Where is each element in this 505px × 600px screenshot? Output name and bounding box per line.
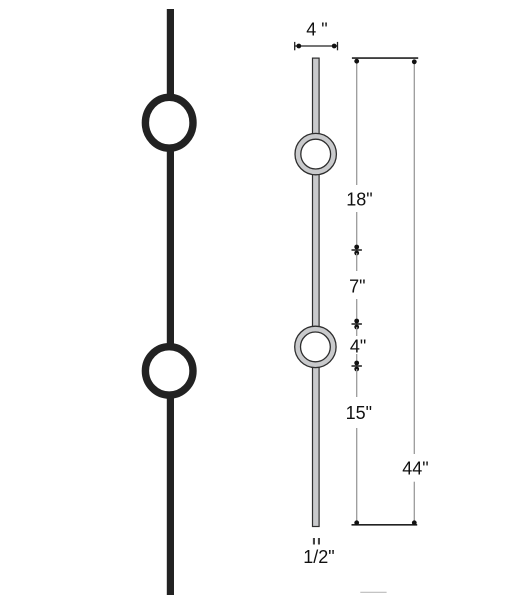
junction A lower dot <box>354 251 359 256</box>
chain segment 7 inch upper <box>356 253 358 271</box>
svg-text:4 ": 4 " <box>306 20 327 40</box>
left baluster ring 1 <box>145 97 193 148</box>
chain segment 7 inch lower <box>356 299 358 321</box>
junction B lower dot <box>354 325 359 330</box>
svg-text:4": 4" <box>350 337 366 357</box>
junction B tick <box>352 323 362 325</box>
overall 44 inch line lower <box>413 482 415 523</box>
footer faint line <box>360 591 386 593</box>
junction C lower dot <box>354 367 359 372</box>
top width dimension line <box>295 45 338 47</box>
half inch left tick <box>313 538 315 545</box>
chain top dot <box>354 59 359 64</box>
drawing ring 2 gray band <box>298 329 334 365</box>
drawing ring 1 inner outline <box>301 139 331 169</box>
svg-text:15": 15" <box>346 403 372 423</box>
top width dimension right dot <box>332 44 337 49</box>
junction A upper dot <box>354 245 359 250</box>
half inch right tick <box>318 538 320 545</box>
chain segment 18 inch lower <box>356 212 358 247</box>
drawing ring 2 inner outline <box>301 332 331 362</box>
drawing bar <box>313 58 320 526</box>
drawing ring 1 gray band <box>298 136 334 172</box>
chain segment 15 inch lower <box>356 428 358 523</box>
svg-text:44": 44" <box>402 459 428 479</box>
junction A tick <box>352 249 362 251</box>
top width dimension right tick <box>337 42 339 50</box>
svg-text:18": 18" <box>346 189 372 209</box>
left baluster ring 2 <box>145 347 193 395</box>
drawing ring 2 outer outline <box>295 326 336 367</box>
top width dimension left tick <box>294 42 296 50</box>
svg-text:1/2": 1/2" <box>303 547 334 567</box>
drawing ring 1 outer outline <box>295 133 336 174</box>
chain segment 18 inch upper <box>356 61 358 185</box>
overall 44 inch line upper <box>413 62 415 454</box>
junction C upper dot <box>354 361 359 366</box>
svg-text:7": 7" <box>349 276 365 296</box>
junction B upper dot <box>354 319 359 324</box>
left baluster bar <box>167 9 174 595</box>
chain bottom dot <box>354 520 359 525</box>
chain segment 4 inch lower <box>356 354 358 363</box>
chain segment 15 inch upper <box>356 369 358 397</box>
top tie line <box>352 57 418 59</box>
chain segment 4 inch upper <box>356 327 358 336</box>
top width dimension left dot <box>296 44 301 49</box>
overall top dot <box>412 59 417 64</box>
junction C tick <box>352 365 362 367</box>
bottom tie line <box>352 524 418 526</box>
overall bottom dot <box>412 520 417 525</box>
